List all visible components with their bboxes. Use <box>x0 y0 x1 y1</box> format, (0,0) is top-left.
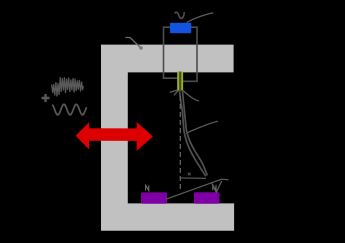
red double-headed arrow (base excitation) <box>76 122 153 151</box>
dashed rest-position line <box>179 96 181 191</box>
x displacement line <box>180 177 206 179</box>
plus sign <box>42 94 50 102</box>
leader from beam middle to right <box>188 121 219 132</box>
right magnet <box>194 192 220 204</box>
label N (right magnet) <box>213 185 216 190</box>
left magnet <box>141 192 167 203</box>
dot on frame <box>139 46 142 49</box>
label N (left magnet) <box>146 185 149 190</box>
piezo layer core (dark) <box>179 72 181 91</box>
sine wave <box>52 104 86 115</box>
leader from beam root to right <box>183 91 199 101</box>
leader line to left magnet <box>166 179 229 199</box>
piezo green layer left <box>177 72 179 91</box>
piezo green layer right <box>181 72 183 91</box>
clamp box outline <box>164 27 198 81</box>
leader line to frame with dot <box>126 38 141 48</box>
open arrowhead at right magnet <box>212 181 222 192</box>
frame (C-shaped vibrating support) <box>101 45 234 231</box>
noise waveform (random vibration signal) <box>52 77 84 96</box>
label x <box>188 173 191 176</box>
arrowhead at beam root <box>170 90 179 95</box>
leader line from blue block <box>187 13 213 23</box>
blue electrode block <box>170 23 191 33</box>
label v (voltage, handwritten upsilon) <box>175 12 184 18</box>
cantilever beam (tapered, deflected right) <box>180 90 206 176</box>
